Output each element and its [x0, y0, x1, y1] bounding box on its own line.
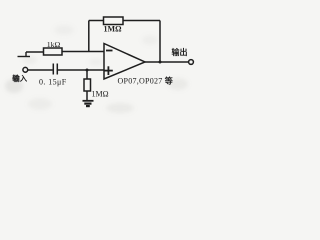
- wire C1 to non-inverting input: [57, 69, 104, 71]
- node junction (bias): [86, 69, 89, 72]
- input terminal: [23, 67, 28, 72]
- node junction (output/feedback): [159, 61, 162, 64]
- output terminal: [189, 60, 194, 65]
- wire R3 to ground: [86, 91, 88, 100]
- svg-text:1kΩ: 1kΩ: [47, 40, 61, 49]
- svg-text:0. 15μF: 0. 15μF: [39, 78, 67, 87]
- wire ground to R1: [26, 51, 44, 53]
- ground (bias, bottom): [83, 101, 94, 106]
- wire feedback tap (vertical): [88, 21, 90, 52]
- op-amp plus sign: [104, 66, 113, 75]
- op-amp minus sign: [106, 50, 113, 52]
- wire junction down to R3: [86, 70, 88, 79]
- svg-text:OP07,OP027 等: OP07,OP027 等: [118, 76, 173, 86]
- wire feedback down to output node: [159, 21, 161, 63]
- wire tap to R2: [89, 20, 104, 22]
- wire op-amp output to terminal: [145, 61, 189, 63]
- wire R2 to feedback corner: [123, 20, 160, 22]
- op-amp U1: [104, 44, 145, 80]
- svg-text:1MΩ: 1MΩ: [92, 90, 109, 99]
- paper background: [0, 0, 197, 117]
- resistor R3 1MΩ (bias to ground): [84, 79, 91, 91]
- wire R1 to inverting input: [62, 51, 104, 53]
- svg-text:1MΩ: 1MΩ: [104, 25, 123, 34]
- capacitor C1: [53, 64, 57, 75]
- resistor R1 1kΩ: [44, 48, 63, 55]
- svg-text:输出: 输出: [172, 47, 188, 57]
- wire input to C1: [28, 69, 53, 71]
- ground (input bias, top-left): [18, 52, 31, 57]
- resistor R2 1MΩ (feedback): [104, 17, 124, 25]
